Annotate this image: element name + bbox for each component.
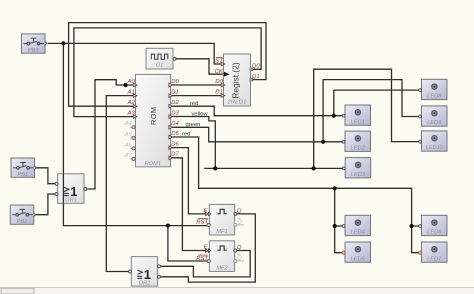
unused pin A5	[130, 137, 134, 139]
wire branch down to LED7	[412, 226, 420, 253]
wire Q0 feedback to ROM A3	[74, 28, 261, 117]
junction LED6 node	[410, 224, 414, 228]
svg-text:ROM1: ROM1	[145, 161, 161, 167]
pin Q	[234, 212, 237, 215]
svg-text:LED5: LED5	[351, 256, 366, 262]
pin E edge trigger	[205, 212, 210, 216]
svg-text:PB2: PB2	[17, 219, 29, 225]
LED4	[342, 215, 370, 235]
wire LED3 rail	[204, 167, 343, 169]
pin D1	[221, 94, 225, 98]
svg-text:D6: D6	[171, 142, 179, 148]
LED5	[342, 242, 371, 262]
wire ROM D6 to MF1 E	[171, 148, 206, 214]
wire ROM D2 (red) to LED1	[171, 106, 343, 116]
pin A0	[133, 83, 137, 87]
svg-text:PB3: PB3	[28, 48, 40, 54]
svg-text:LED2: LED2	[351, 145, 366, 151]
pin A1	[133, 94, 137, 98]
svg-text:LED7: LED7	[427, 256, 442, 262]
wire ROM D3 (yellow) down to LED3 rail	[171, 117, 216, 169]
svg-text:ST: ST	[215, 59, 223, 65]
pin A3	[133, 115, 137, 119]
svg-text:A7: A7	[124, 153, 133, 159]
junction D3 to LED3 rail	[213, 166, 217, 170]
svg-text:ROM: ROM	[149, 107, 158, 125]
pin Q1	[250, 78, 253, 81]
wire PB3 output to register ST	[48, 43, 223, 64]
svg-text:LED6: LED6	[427, 230, 442, 236]
svg-text:D0: D0	[215, 79, 223, 85]
ROM ROM1	[124, 74, 180, 167]
wire ROM D5 (red) long rail to LED6	[171, 137, 420, 226]
svg-text:A1: A1	[127, 90, 135, 96]
svg-text:RST: RST	[196, 219, 208, 225]
wire branch down to LED4 and LED5	[335, 188, 343, 252]
junction LED2 rail to LED9 branch	[321, 140, 325, 144]
LED2	[342, 131, 370, 151]
junction RST rail	[166, 224, 170, 228]
svg-text:Q: Q	[237, 208, 242, 214]
pin ST	[221, 62, 225, 66]
LED10	[419, 131, 447, 151]
OR2 output pin	[129, 270, 132, 273]
unused pin Qbar	[234, 260, 237, 263]
OR2 input pin 2	[157, 275, 160, 278]
pins D0-D7	[169, 83, 173, 159]
svg-text:E: E	[204, 245, 208, 251]
wire MF1 Q to OR2 input 1	[159, 214, 256, 282]
svg-text:D0: D0	[171, 79, 179, 85]
pin RST	[207, 259, 210, 262]
svg-text:PB1: PB1	[17, 172, 28, 178]
status bar	[0, 288, 474, 294]
unused pin Qbar	[234, 223, 237, 226]
pin CK clock triangle	[224, 72, 230, 77]
junction A0 wire	[124, 83, 128, 87]
svg-text:A3: A3	[127, 111, 136, 117]
wire ROM D0 to register D0	[171, 84, 223, 86]
svg-text:D7: D7	[171, 152, 179, 158]
svg-text:D1: D1	[215, 90, 223, 96]
wire branch up to LED9	[323, 80, 420, 142]
svg-text:A0: A0	[127, 79, 136, 85]
OR1 output pin	[84, 188, 87, 191]
svg-text:RST: RST	[196, 256, 208, 262]
wire PB1 to OR1 input 1	[36, 168, 56, 184]
svg-text:MF2: MF2	[216, 265, 228, 271]
svg-text:OR2: OR2	[139, 280, 152, 286]
svg-text:D1: D1	[171, 90, 179, 96]
OR2 input pin 1	[157, 265, 160, 268]
svg-text:Regist.(2): Regist.(2)	[231, 62, 241, 99]
pin D0	[221, 83, 225, 87]
svg-text:D3: D3	[171, 111, 179, 117]
svg-text:D4: D4	[171, 121, 179, 127]
LED3	[342, 158, 370, 178]
wire Q1 feedback to ROM A2	[69, 23, 266, 107]
svg-text:LED4: LED4	[351, 230, 365, 236]
wire ROM D7 to MF2 E	[171, 158, 206, 251]
svg-text:D5: D5	[171, 131, 179, 137]
svg-text:LED1: LED1	[351, 119, 365, 125]
monoflop MF2	[196, 241, 244, 272]
junction LED4 node	[333, 224, 337, 228]
clock generator G1	[146, 48, 176, 69]
junction LED1 rail to LED8 branch	[332, 114, 336, 118]
svg-text:Q: Q	[237, 256, 242, 262]
svg-text:D2: D2	[171, 100, 179, 106]
LED6	[419, 215, 447, 235]
wire OR1 output to ROM A0	[85, 80, 133, 189]
wire MF2 Q to OR2 input 2	[159, 251, 250, 277]
svg-text:A4: A4	[124, 121, 133, 127]
wire stub to LED4	[335, 225, 343, 227]
pin Q	[234, 249, 237, 252]
push button PB1	[11, 158, 37, 178]
svg-text:red: red	[190, 101, 198, 107]
svg-text:LED8: LED8	[427, 94, 442, 100]
svg-text:A2: A2	[127, 100, 136, 106]
svg-text:yellow: yellow	[192, 111, 209, 117]
LED8	[419, 79, 447, 99]
svg-text:red: red	[182, 132, 190, 138]
OR1 input pin 1	[55, 182, 58, 185]
register 2REG1	[215, 54, 261, 106]
wire branch to MF2 RST	[168, 226, 207, 261]
push button PB2	[10, 205, 36, 225]
svg-text:A5: A5	[124, 132, 133, 138]
LED1	[342, 105, 370, 125]
push button PB3	[22, 34, 48, 54]
pin E edge trigger	[205, 249, 210, 253]
wire PB2 to OR1 input 2	[36, 194, 57, 215]
wire branch up to LED10	[314, 69, 420, 168]
OR1 input pin 2	[55, 193, 58, 196]
svg-text:Q: Q	[237, 245, 242, 251]
wire G1 clock to register CK	[175, 59, 223, 74]
wire ROM D1 to register D1	[171, 95, 223, 97]
junction D5 rail to LED4 branch	[333, 186, 337, 190]
unused pin A7	[130, 158, 134, 160]
wire crossing OR1 (vertical PB3 branch) redrawn over box	[62, 174, 64, 204]
svg-text:LED3: LED3	[351, 172, 366, 178]
svg-text:LED9: LED9	[427, 120, 442, 126]
svg-text:Q: Q	[237, 219, 242, 225]
svg-text:OR1: OR1	[65, 198, 77, 204]
junction PB3 branch	[61, 41, 65, 45]
unused pin A6	[130, 147, 134, 149]
svg-text:E: E	[204, 208, 208, 214]
svg-text:Q0: Q0	[252, 64, 261, 70]
pin A2	[133, 104, 137, 108]
LED7	[419, 242, 448, 262]
svg-text:MF1: MF1	[216, 229, 227, 235]
wire branch node to LED8	[334, 90, 420, 116]
svg-text:A6: A6	[124, 142, 133, 148]
svg-text:2REG1: 2REG1	[227, 99, 247, 105]
wire ROM D4 (green) to LED2	[171, 127, 343, 142]
unused pin A4	[130, 126, 134, 128]
OR gate OR1	[55, 174, 87, 204]
pin Q0	[250, 68, 253, 71]
OR gate OR2 (mirrored)	[129, 257, 161, 287]
wire PB3 branch down to MF1 RST	[63, 43, 207, 225]
LED9	[419, 106, 447, 126]
svg-text:green: green	[186, 122, 201, 128]
junction LED3 rail to LED10 branch	[312, 166, 316, 170]
pin RST	[207, 223, 210, 226]
svg-text:CK: CK	[215, 69, 224, 75]
wire OR2 output to ROM A1	[106, 96, 133, 272]
svg-text:G1: G1	[156, 63, 163, 69]
svg-text:Q1: Q1	[252, 74, 260, 80]
monoflop MF1	[196, 204, 244, 235]
svg-text:LED10: LED10	[426, 145, 444, 151]
